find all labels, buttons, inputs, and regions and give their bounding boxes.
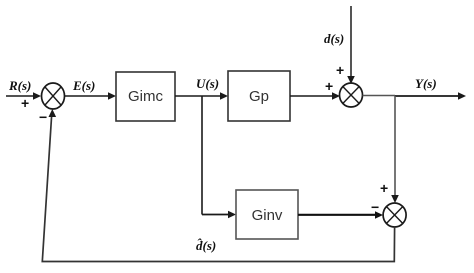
svg-text:R(s): R(s) (8, 78, 31, 93)
summing junction S2 (340, 83, 363, 107)
svg-text:+: + (325, 78, 333, 94)
svg-text:E(s): E(s) (72, 78, 95, 93)
wire branch from output down to S3 (394, 96, 396, 197)
svg-text:U(s): U(s) (196, 76, 219, 91)
svg-text:+: + (336, 62, 344, 78)
svg-text:Y(s): Y(s) (415, 76, 437, 91)
svg-text:−: − (39, 109, 47, 125)
svg-text:Gp: Gp (249, 88, 269, 105)
wire Gp to summing junction S2 (290, 95, 334, 97)
wire E(s) (65, 95, 111, 97)
wire Y(s) output (363, 95, 396, 97)
wire feedback S3 down, left and up to S1 (42, 113, 394, 262)
wire R(s) input (6, 95, 35, 97)
block Ginv (236, 190, 298, 239)
svg-text:Gimc: Gimc (128, 88, 163, 105)
wire Gimc to Gp (175, 95, 222, 97)
wire d(s) input from top (350, 6, 352, 78)
block Gimc (116, 72, 175, 121)
svg-text:d̂(s): d̂(s) (196, 238, 216, 253)
summing junction S1 (42, 83, 65, 109)
wire branch from U(s) down to Ginv (201, 96, 203, 215)
svg-text:+: + (21, 95, 29, 111)
summing junction S3 (383, 203, 406, 227)
wire Ginv to S3 (298, 214, 377, 216)
svg-text:d(s): d(s) (324, 31, 344, 46)
block Gp (228, 71, 290, 121)
svg-text:+: + (380, 180, 388, 196)
svg-text:Ginv: Ginv (252, 207, 283, 224)
